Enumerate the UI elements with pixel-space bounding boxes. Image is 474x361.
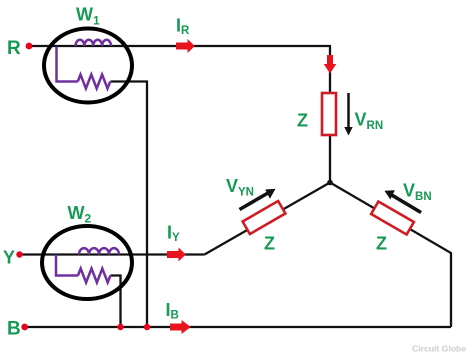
svg-text:Z: Z — [376, 234, 387, 254]
svg-text:Y: Y — [3, 248, 15, 268]
svg-text:Z: Z — [264, 234, 275, 254]
svg-text:B: B — [7, 319, 21, 340]
svg-text:Z: Z — [297, 111, 308, 131]
svg-text:Circuit Globe: Circuit Globe — [412, 344, 466, 354]
svg-text:R: R — [7, 38, 21, 59]
